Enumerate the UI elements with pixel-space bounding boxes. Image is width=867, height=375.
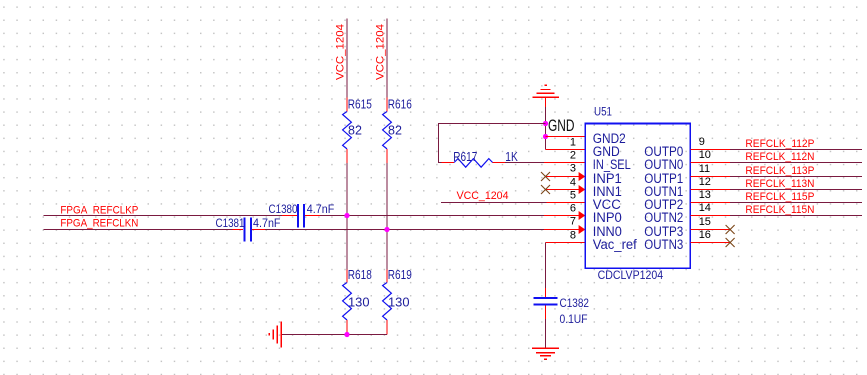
svg-text:VCC_1204: VCC_1204 [335,24,347,80]
wire net REFCLK_112N [730,162,862,164]
wire net REFCLK_113P [730,176,862,178]
capacitor C1382 [534,288,590,326]
wire pin15 stub [690,229,730,231]
svg-text:GND: GND [548,117,575,135]
svg-text:C1382: C1382 [560,296,590,310]
svg-text:FPGA_REFCLKN: FPGA_REFCLKN [60,218,138,230]
wire from VCC_1204 down to R615 [346,18,348,97]
svg-text:7: 7 [570,215,576,227]
wire pin16 stub [690,242,730,244]
ground (bottom, below C1382) [532,348,559,359]
wire pin11 stub [690,176,730,178]
power symbol VCC_1204 (right, net label rotated) [375,24,387,80]
svg-text:VCC_1204: VCC_1204 [375,24,387,80]
svg-text:2: 2 [570,149,576,161]
svg-text:OUTN3: OUTN3 [644,237,683,252]
svg-text:4.7nF: 4.7nF [253,216,281,230]
wire pin12 stub [690,189,730,191]
svg-text:VCC_1204: VCC_1204 [457,190,509,202]
junction R618/rail [344,332,349,337]
svg-text:4: 4 [570,177,576,189]
wire pin3 stub [544,162,585,164]
wire pin14 stub [690,215,730,217]
svg-text:OUTN2: OUTN2 [644,210,683,225]
wire pin13 stub [690,202,730,204]
svg-text:CDCLVP1204: CDCLVP1204 [598,268,664,282]
no-connect X pin4 [541,172,550,181]
power symbol VCC_1204 (left, net label rotated) [335,24,347,80]
svg-text:REFCLK_112P: REFCLK_112P [745,138,814,150]
svg-text:INP0: INP0 [593,210,622,225]
svg-text:0.1UF: 0.1UF [560,312,588,326]
wire FPGA_REFCLKP to C1380 [43,215,281,217]
wire FPGA_REFCLKN to C1381 [43,229,232,231]
svg-text:10: 10 [699,149,711,161]
svg-text:REFCLK_115N: REFCLK_115N [745,204,814,216]
wire C1380 to chip pin 7 [320,215,544,217]
resistor R615 [343,98,372,164]
wire net REFCLK_115N [730,215,862,217]
svg-text:R616: R616 [388,98,412,112]
svg-text:OUTN0: OUTN0 [644,157,683,172]
svg-text:15: 15 [699,216,711,228]
resistor R619 [383,268,412,334]
wire Vac_ref pin down to C1382 [546,242,586,244]
svg-text:5: 5 [570,190,576,202]
svg-text:REFCLK_112N: REFCLK_112N [745,151,814,163]
IC U51 body [585,124,690,269]
resistor R618 [343,268,372,334]
capacitor C1380 [269,202,335,228]
wire net REFCLK_113N [730,189,862,191]
svg-text:FPGA_REFCLKP: FPGA_REFCLKP [60,205,138,217]
wire R617 loop (GND junction to resistor) [439,124,546,163]
svg-text:9: 9 [699,136,705,148]
wire GND to pin 1 [546,136,586,138]
wire VCC_1204 to pin 6 [441,202,547,204]
no-connect X pin16 [726,238,735,247]
junction R616 column / N line [384,227,389,232]
svg-text:82: 82 [348,124,362,138]
junction GND / R617 loop [543,121,548,126]
svg-text:16: 16 [699,229,711,241]
svg-text:REFCLK_113N: REFCLK_113N [745,178,814,190]
wire R617 to pin 3 [505,162,544,164]
svg-text:130: 130 [348,296,370,310]
junction R615 column / P line [344,213,349,218]
junction GND / pin1 [543,134,548,139]
wire pin9 stub [690,149,730,151]
svg-text:130: 130 [388,296,410,310]
wire GND to pin 2 [546,149,586,151]
capacitor C1381 [216,216,281,241]
svg-text:3: 3 [570,162,576,174]
svg-text:R619: R619 [388,268,412,282]
svg-text:1K: 1K [505,150,518,164]
svg-text:Vac_ref: Vac_ref [593,237,637,252]
pin 8 arrowhead [579,225,586,234]
svg-text:R617: R617 [453,150,477,164]
ground rail wire at bottom of R618/R619 [282,334,387,336]
wire pin5 stub [546,189,586,191]
resistor R617 [442,150,519,167]
svg-text:14: 14 [699,202,711,214]
svg-text:REFCLK_113P: REFCLK_113P [745,165,814,177]
svg-text:IN_SEL: IN_SEL [593,157,631,172]
wire R615 down through P line to R618 [346,163,348,269]
pin 5 arrowhead [579,185,586,194]
pin 4 arrowhead [579,172,586,181]
svg-text:11: 11 [699,163,710,175]
no-connect X pin15 [726,225,735,234]
resistor R616 [383,98,412,164]
pin 7 arrowhead [579,211,586,220]
svg-text:U51: U51 [594,107,612,119]
wire pin6 stub [547,202,586,204]
no-connect X pin5 [541,185,550,194]
wire ground stem (red segment below symbol) [545,97,547,107]
svg-text:REFCLK_115P: REFCLK_115P [745,191,814,203]
svg-text:13: 13 [699,189,711,201]
svg-text:R615: R615 [348,98,372,112]
wire net REFCLK_115P [730,202,862,204]
wire ground stem down to GND junctions [545,107,547,150]
ground (rotated, left of rail) [269,321,281,347]
wire net REFCLK_112P [730,149,862,151]
svg-text:82: 82 [388,124,402,138]
svg-text:1: 1 [570,136,576,148]
svg-text:6: 6 [570,203,576,215]
svg-text:8: 8 [570,230,576,242]
svg-text:C1380: C1380 [269,202,298,216]
svg-text:4.7nF: 4.7nF [307,202,335,216]
ground (top, above GND net) [532,85,558,97]
wire C1382 to ground [545,319,547,348]
wire pin4 stub [546,176,586,178]
svg-text:12: 12 [699,176,711,188]
svg-text:R618: R618 [348,268,372,282]
wire pin8 stub [544,229,585,231]
wire pin10 stub [690,162,730,164]
wire pin7 stub [544,215,585,217]
wire R616 down through lines to R619 [386,163,388,269]
svg-text:C1381: C1381 [216,216,245,230]
wire from VCC_1204 down to R616 [386,18,388,97]
wire C1381 to chip pin 8 [265,229,544,231]
